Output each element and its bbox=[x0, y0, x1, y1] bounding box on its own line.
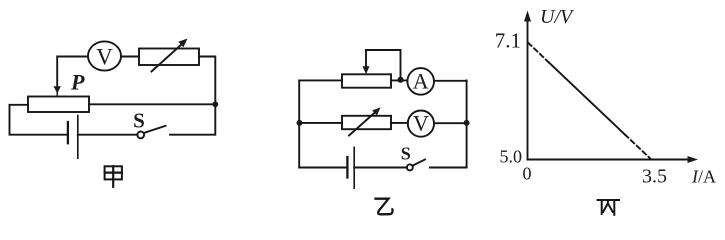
svg-text:P: P bbox=[70, 70, 85, 95]
y-axis arrowhead bbox=[524, 11, 531, 22]
svg-text:V: V bbox=[96, 45, 113, 70]
wire: battery to switch bbox=[354, 167, 407, 169]
wire: switch to right rail bbox=[430, 167, 467, 169]
wire: voltmeter left lead to slider drop bbox=[57, 57, 88, 87]
wire: potentiometer left end, left rail, bottom wire to battery bbox=[10, 105, 67, 135]
U-I line, solid part bbox=[549, 63, 625, 135]
wire: ammeter to right rail bbox=[434, 80, 467, 82]
switch S2 lever bbox=[413, 160, 425, 166]
wire: switch to right rail (bottom-right corner) bbox=[170, 106, 215, 135]
slider jumper wire to branch bbox=[366, 50, 401, 78]
svg-text:5.0: 5.0 bbox=[500, 147, 523, 167]
wire: potentiometer right end to junction bbox=[89, 103, 215, 105]
switch S1 pivot bbox=[137, 132, 144, 139]
potentiometer P body bbox=[28, 97, 89, 113]
wire: battery to switch bbox=[78, 134, 138, 136]
junction dot (slider jumper) bbox=[397, 77, 403, 83]
slider arrowhead onto potentiometer P bbox=[54, 86, 61, 93]
svg-text:A: A bbox=[413, 69, 429, 94]
junction dot (left rail, middle branch) bbox=[297, 120, 303, 126]
rheostat R1 (top, slash arrow) bbox=[139, 39, 199, 72]
label jia (CJK glyph drawn) bbox=[105, 166, 122, 187]
label yi (CJK glyph drawn) bbox=[376, 199, 393, 215]
wire: left rail to rheostat (middle branch) bbox=[299, 122, 342, 124]
U-I line, lower dashed part bbox=[625, 135, 651, 160]
label bing (CJK glyph drawn) bbox=[598, 200, 620, 215]
slider stem bbox=[365, 50, 367, 68]
switch S2 pivot bbox=[407, 164, 413, 170]
svg-text:3.5: 3.5 bbox=[642, 166, 667, 188]
right rail bbox=[466, 80, 468, 167]
voltmeter V1 bbox=[88, 41, 121, 70]
switch S1 lever bbox=[144, 126, 166, 133]
wire: potentiometer to ammeter bbox=[391, 79, 407, 81]
x-axis arrowhead bbox=[688, 156, 699, 163]
junction dot (right rail / pot wire) bbox=[212, 101, 218, 107]
ammeter A1 bbox=[407, 68, 434, 95]
svg-text:0: 0 bbox=[523, 164, 532, 184]
battery B2 negative plate (short) bbox=[346, 157, 348, 178]
x-axis (I) bbox=[528, 159, 689, 161]
y-axis (U) bbox=[527, 21, 529, 160]
battery B1 positive plate (long) bbox=[77, 116, 79, 159]
battery B2 positive plate (long) bbox=[353, 147, 355, 188]
svg-text:U/V: U/V bbox=[540, 6, 575, 28]
svg-text:7.1: 7.1 bbox=[495, 29, 521, 53]
wire: rheostat to right rail (top-right corner) bbox=[199, 57, 215, 104]
svg-text:S: S bbox=[401, 143, 411, 163]
wire: voltmeter to rheostat bbox=[121, 56, 139, 58]
slider arrowhead onto R2 bbox=[363, 66, 370, 74]
battery B1 negative plate (short) bbox=[67, 122, 69, 143]
wire: voltmeter to right rail bbox=[434, 122, 467, 124]
potentiometer R2 body (top branch) bbox=[342, 74, 391, 87]
rheostat R3 (middle branch, slash arrow) bbox=[342, 107, 391, 135]
svg-text:V: V bbox=[413, 111, 429, 136]
wire: left rail to potentiometer (top branch) bbox=[299, 79, 342, 81]
svg-text:S: S bbox=[133, 109, 145, 133]
junction dot (right rail, middle branch) bbox=[464, 120, 470, 126]
wire: left rail to battery (bottom branch) bbox=[299, 167, 346, 169]
voltmeter V2 bbox=[408, 111, 434, 137]
U-I line, upper dashed part bbox=[528, 43, 549, 63]
left rail bbox=[298, 80, 300, 167]
svg-text:I/A: I/A bbox=[691, 167, 716, 187]
wire: rheostat to voltmeter bbox=[391, 122, 408, 124]
